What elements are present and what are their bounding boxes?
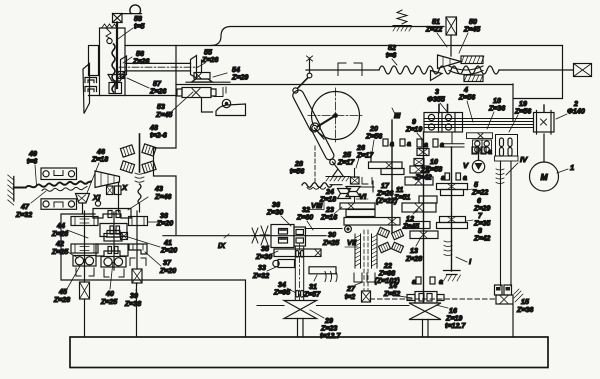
cup under 57: [109, 83, 122, 94]
screw 58 wavy: [112, 44, 115, 92]
bearing pair I top: [441, 173, 467, 182]
svg-text:t=5: t=5: [134, 23, 146, 31]
gear 19 slotted block: [496, 135, 518, 157]
label 33 Z=32: [252, 264, 276, 280]
dashed shaft from crank: [314, 146, 316, 183]
chain wavy line: [14, 181, 91, 187]
label 1: [557, 163, 574, 173]
bracket pair right shaft: [130, 258, 146, 266]
label 29: [310, 310, 341, 340]
label 12 Z=45: [402, 210, 420, 231]
gear 43 wide bar: [93, 209, 131, 219]
svg-text:44: 44: [56, 222, 65, 230]
cam roller: [222, 99, 230, 107]
svg-text:Z=52: Z=52: [383, 290, 400, 298]
clutch L1: [76, 268, 94, 276]
clutch brackets on screw: [338, 63, 362, 76]
crank arm: [312, 116, 336, 131]
svg-text:t=12.7: t=12.7: [445, 322, 466, 330]
label 37: [145, 252, 176, 275]
crossed box II upper: [414, 159, 424, 166]
bearing rollers 18: [473, 140, 492, 153]
svg-text:Z=19: Z=19: [405, 126, 422, 134]
bearing pair V: [472, 147, 492, 156]
svg-text:XI: XI: [92, 193, 101, 202]
worm wheel hatched block top: [461, 56, 484, 64]
shaft X vertical: [118, 182, 120, 212]
svg-text:t=2: t=2: [345, 293, 356, 301]
bracket right of 53: [214, 87, 226, 97]
svg-text:III: III: [394, 111, 401, 120]
gear 15 crossed box: [496, 295, 513, 304]
svg-text:Z=46: Z=46: [154, 193, 171, 201]
upper link to pivot: [293, 77, 309, 94]
bevel 56: [121, 56, 127, 78]
pulley 3 d355: [424, 113, 463, 133]
node VIII: [310, 201, 324, 210]
line L1 to base: [84, 299, 86, 337]
svg-text:Z=20: Z=20: [159, 267, 176, 275]
gear 20/21 block on III: [369, 152, 405, 175]
shaft IX line: [163, 235, 326, 237]
motor M: [530, 162, 559, 191]
label 27 t=2: [345, 282, 363, 301]
svg-text:IV: IV: [520, 155, 528, 164]
label 42: [51, 240, 78, 258]
frame top line y84: [176, 84, 513, 86]
label 16: [436, 305, 466, 330]
pivot on screw line: [307, 56, 313, 78]
node XI: [92, 193, 101, 206]
label 14 Z=52: [383, 282, 412, 298]
shaft below pulley 3: [442, 132, 464, 147]
pulley 2 d140: [534, 111, 555, 135]
svg-text:Z=56: Z=56: [365, 133, 382, 141]
gear 41 small: [121, 233, 128, 240]
label 13 Z=28: [405, 239, 422, 263]
svg-text:33: 33: [258, 264, 266, 272]
small wedge below screw: [431, 71, 443, 81]
frame line B y26 with elbow: [211, 27, 444, 46]
svg-text:Z=26: Z=26: [149, 88, 166, 96]
bearing pair III: [383, 139, 411, 148]
svg-text:53: 53: [157, 103, 165, 111]
label 49 t=6: [27, 150, 38, 185]
spring on IX a: [252, 228, 258, 243]
line y95.5 under mechanism: [89, 95, 177, 97]
bevel 55: [191, 56, 197, 79]
worm 28 wavy: [302, 183, 332, 190]
diamond gear b: [142, 144, 156, 156]
pulley 2 stub: [543, 105, 545, 112]
bearing pair 9: [417, 139, 444, 149]
svg-text:Z=17: Z=17: [337, 159, 355, 167]
svg-text:Z=32: Z=32: [15, 211, 32, 219]
svg-text:30: 30: [328, 231, 336, 239]
label 44: [51, 222, 88, 238]
dial crosshair: [308, 88, 363, 143]
svg-text:Z=20: Z=20: [156, 220, 173, 228]
label 50: [459, 18, 481, 53]
svg-text:Z=25: Z=25: [322, 239, 340, 247]
clutch mid: [104, 269, 124, 277]
svg-text:Z=26: Z=26: [201, 56, 218, 64]
belt lines: [424, 119, 533, 128]
roller box mid: [101, 257, 126, 268]
svg-text:t=6: t=6: [386, 52, 397, 60]
node VII: [345, 238, 358, 247]
label 15 Z=36: [516, 298, 533, 314]
gear 5 block: [437, 184, 468, 196]
label 32 Z=60: [296, 206, 313, 230]
bearing pair II low: [412, 277, 443, 286]
left pillar: [89, 46, 99, 76]
label 24 Z=18: [319, 188, 336, 204]
label 55: [196, 49, 218, 69]
bevel 46 hatched cone: [95, 171, 120, 188]
node IV: [506, 155, 528, 175]
gear 40 block: [96, 244, 128, 256]
diamond gears center a: [378, 227, 390, 237]
label 25 Z=17: [337, 151, 355, 167]
svg-text:Z=36: Z=36: [488, 105, 505, 113]
gear block mid 42: [100, 224, 127, 237]
spring detent: [393, 10, 412, 31]
shaft II: [423, 132, 425, 302]
bevel 16: [409, 303, 441, 320]
svg-text:a: a: [488, 148, 492, 156]
sprocket box bottom: [41, 199, 77, 210]
svg-text:Φ355: Φ355: [427, 96, 446, 104]
gear 7 block: [437, 217, 468, 229]
gearbox outline: [61, 214, 246, 337]
svg-text:a: a: [439, 278, 443, 286]
gear 44: [71, 217, 98, 226]
bevel 50 wedge: [438, 55, 462, 69]
label 3 d355: [427, 88, 448, 113]
svg-text:t=12.7: t=12.7: [320, 332, 341, 340]
label 52 t=6: [386, 44, 397, 65]
gear 27 crossed box: [362, 291, 371, 302]
svg-text:Z=45: Z=45: [463, 26, 481, 34]
shaft L2: [113, 212, 115, 270]
rack strip left: [355, 234, 361, 268]
gear 31 bar: [309, 267, 336, 274]
gear 23 bar: [340, 197, 375, 217]
worm wheel rim arcs: [449, 66, 483, 75]
bevel pair 25/26: [346, 187, 360, 197]
rod of screw 58: [116, 23, 118, 89]
svg-text:I: I: [469, 257, 472, 266]
gear 58 crossed box: [113, 14, 123, 23]
svg-text:Z=22: Z=22: [471, 189, 488, 197]
label 34 Z=95: [273, 281, 296, 297]
svg-text:a: a: [441, 174, 445, 182]
svg-text:Z=25: Z=25: [100, 298, 118, 306]
node I: [456, 257, 472, 266]
svg-text:t=6: t=6: [27, 158, 38, 166]
label 56: [123, 50, 149, 66]
label 54: [213, 66, 248, 82]
spring on IX b: [260, 226, 269, 245]
bevel 29 shaft to base: [298, 319, 304, 337]
bottom bearing blocks: [495, 285, 512, 295]
svg-text:Z=95: Z=95: [273, 289, 291, 297]
mesh crossed box on screw: [118, 72, 125, 79]
label 40: [100, 262, 118, 306]
svg-text:42: 42: [55, 240, 64, 248]
coil stack I: [444, 241, 452, 256]
svg-text:1: 1: [570, 163, 574, 172]
hook omega: [122, 5, 142, 14]
node X: [121, 183, 128, 192]
bar mid with key: [104, 234, 122, 242]
svg-text:Z=25: Z=25: [51, 248, 69, 256]
base plate: [70, 337, 548, 368]
node VI: [356, 192, 368, 201]
cylinder outer: [291, 89, 322, 134]
svg-text:Z=30: Z=30: [266, 209, 283, 217]
cups under racks: [354, 273, 375, 282]
crank pin link: [315, 128, 325, 139]
svg-text:VIII: VIII: [311, 201, 323, 210]
gear 53 crossed box: [177, 88, 216, 98]
sprocket box top: [41, 168, 77, 180]
svg-text:Z=28: Z=28: [51, 230, 68, 238]
stem of 53/54: [202, 60, 213, 112]
label 18 Z=36: [487, 97, 505, 129]
housing box: [100, 28, 126, 96]
label 39: [124, 283, 141, 308]
svg-text:43: 43: [154, 185, 163, 193]
svg-text:Z=26: Z=26: [132, 58, 149, 66]
bearing cap under 19: [495, 156, 519, 161]
svg-text:Z=57: Z=57: [303, 291, 321, 299]
node III: [392, 108, 401, 120]
clutch jaws left: [85, 78, 97, 92]
label 11 Z=51: [393, 186, 410, 202]
svg-text:Z=35: Z=35: [473, 220, 491, 228]
gear 36 box: [271, 225, 294, 248]
svg-text:a: a: [440, 141, 444, 149]
svg-text:Z=58: Z=58: [425, 166, 442, 174]
svg-text:Z=22: Z=22: [425, 26, 442, 34]
svg-text:Z=16: Z=16: [320, 214, 337, 222]
crossed box bottom L3: [132, 269, 142, 283]
label 4 Z=56: [458, 86, 475, 122]
gear 45 roller box: [73, 256, 96, 267]
pulley 3 shaft stub: [439, 105, 448, 113]
svg-text:Z=18: Z=18: [91, 156, 108, 164]
gear bar II mid: [406, 222, 430, 229]
shaft 34 wide vertical: [295, 244, 303, 302]
label 28 t=56: [290, 160, 304, 176]
shaft down from pinion: [82, 203, 84, 213]
crossed box bottom L1: [80, 282, 90, 299]
gear 38: [129, 217, 148, 226]
svg-text:Z=45: Z=45: [155, 111, 173, 119]
line IX into box: [305, 228, 342, 230]
coil marks on shaft 48: [135, 173, 144, 182]
label 48 t=2-6: [149, 124, 167, 140]
svg-text:a: a: [412, 278, 416, 286]
svg-text:Z=36: Z=36: [516, 306, 533, 314]
gear 42: [71, 244, 98, 253]
dial circle: [312, 92, 360, 140]
label 43 Z=46: [128, 185, 171, 210]
label 22 Z=98: [374, 262, 400, 285]
hatch at 15: [514, 289, 523, 302]
small gear pair on X: [107, 186, 122, 195]
svg-text:M: M: [540, 172, 548, 182]
shaft I: [451, 147, 453, 271]
svg-text:37: 37: [163, 259, 172, 267]
label 36 Z=30: [266, 201, 291, 226]
bevel 57: [108, 75, 124, 82]
column lines: [501, 161, 512, 286]
gear 18 bar: [467, 133, 493, 139]
gear 37: [129, 244, 147, 254]
label 17: [376, 182, 398, 205]
gear 35 long bar: [274, 249, 321, 257]
shaft L1: [84, 211, 86, 282]
frame line A y45: [125, 45, 563, 47]
gear 25 stem: [351, 169, 373, 185]
shaft L3: [136, 211, 138, 269]
svg-text:13: 13: [410, 247, 418, 255]
label 9 Z=19: [405, 118, 423, 140]
leadscrew right segment: [499, 69, 573, 71]
bevel pair 24: [338, 189, 351, 199]
pinion 46 crossed trapezoid: [76, 194, 90, 204]
shaft I ground: [444, 271, 461, 282]
svg-text:a: a: [424, 141, 428, 149]
label 45: [53, 266, 80, 304]
svg-text:47: 47: [20, 203, 30, 211]
svg-text:a: a: [390, 140, 394, 148]
label 46 Z=18: [87, 148, 108, 193]
screw 27 dashed: [364, 230, 368, 290]
gear 6 bar: [419, 196, 437, 203]
label 47 Z=32: [15, 191, 46, 219]
svg-text:Z=38: Z=38: [124, 300, 141, 308]
rack strip right: [372, 234, 378, 268]
label 30 Z=25: [322, 231, 340, 247]
gear 30 bar with pivot: [344, 218, 400, 233]
svg-text:X: X: [121, 183, 128, 192]
label 21 Z=42: [413, 166, 432, 182]
gear 11 mesh bar: [405, 177, 433, 185]
cam block: [216, 104, 246, 116]
label 26 Z=17: [356, 144, 374, 168]
node V: [463, 161, 469, 170]
label 38: [148, 212, 173, 228]
svg-text:Z=56: Z=56: [514, 108, 531, 116]
svg-text:t=2-6: t=2-6: [150, 132, 167, 140]
label 23 Z=16: [320, 206, 342, 222]
horizontal screw shaft 56-55: [119, 63, 198, 71]
label 10 Z=58: [425, 158, 442, 174]
worm wheel hatched block bottom: [464, 75, 483, 82]
svg-text:39: 39: [130, 292, 138, 300]
column left edge with notch: [154, 46, 177, 235]
gear 22 crossed small on II top: [417, 149, 429, 156]
coil on IV: [496, 169, 504, 184]
diamond gears center d: [392, 242, 404, 252]
svg-text:Z=28: Z=28: [53, 296, 70, 304]
svg-text:Z=42: Z=42: [473, 235, 490, 243]
diamond gear a: [120, 145, 134, 157]
diamond gears center c: [379, 242, 391, 252]
motor shaft: [543, 134, 545, 162]
svg-text:27: 27: [346, 285, 356, 293]
label 53: [155, 92, 193, 119]
svg-text:Z=30: Z=30: [255, 253, 272, 261]
end handwheel crossed box: [574, 64, 592, 77]
svg-text:15: 15: [521, 298, 530, 306]
svg-text:V: V: [463, 161, 469, 170]
svg-text:Z=56: Z=56: [458, 94, 475, 102]
dashed feed line: [370, 298, 495, 300]
label 19 Z=56: [509, 100, 531, 132]
worm VI shaft: [330, 181, 374, 192]
label 57: [127, 78, 166, 96]
svg-text:Z=45: Z=45: [402, 223, 420, 231]
screw 48 wavy: [138, 184, 141, 212]
label 58 t=5: [118, 15, 146, 39]
label 2 d140: [556, 100, 585, 119]
node IX: [218, 234, 229, 250]
svg-text:14: 14: [389, 282, 397, 290]
spring fork follower: [106, 28, 112, 44]
label 51: [425, 18, 447, 47]
svg-text:Φ140: Φ140: [567, 108, 585, 116]
shaft V: [478, 147, 480, 160]
svg-text:a: a: [463, 174, 467, 182]
svg-text:Z=60: Z=60: [296, 214, 313, 222]
gear 10 bar: [410, 166, 429, 173]
leadscrew left segment: [306, 69, 379, 71]
lower pin: [330, 159, 336, 165]
cylinder rod inner: [309, 122, 335, 161]
svg-text:IX: IX: [218, 241, 226, 250]
chain second strand: [42, 187, 87, 192]
spring comb on housing top: [102, 24, 117, 28]
gear 33 bar: [273, 260, 295, 268]
bevel 16 shaft to base: [423, 320, 429, 337]
gear 51 crossed box: [446, 17, 457, 56]
worm 52 wavy: [379, 66, 499, 74]
svg-text:(Z=22): (Z=22): [376, 197, 398, 205]
line y305: [257, 305, 409, 307]
gear 36 right block: [294, 227, 306, 246]
wall hatch left: [8, 175, 14, 205]
label 31 Z=57: [303, 275, 321, 299]
svg-text:35: 35: [261, 245, 270, 253]
svg-text:t=56: t=56: [290, 168, 304, 176]
svg-text:Z=32: Z=32: [252, 272, 269, 280]
bevel 29: [284, 301, 317, 319]
label 41: [128, 237, 177, 255]
line L3 to base: [136, 283, 138, 337]
gear 12 bar: [402, 203, 436, 212]
svg-text:45: 45: [58, 288, 68, 296]
coil on 31: [325, 272, 337, 282]
svg-text:Z=28: Z=28: [405, 255, 422, 263]
svg-text:40: 40: [105, 290, 114, 298]
diamond gear d: [142, 161, 156, 173]
belt guard corner right: [513, 46, 563, 122]
